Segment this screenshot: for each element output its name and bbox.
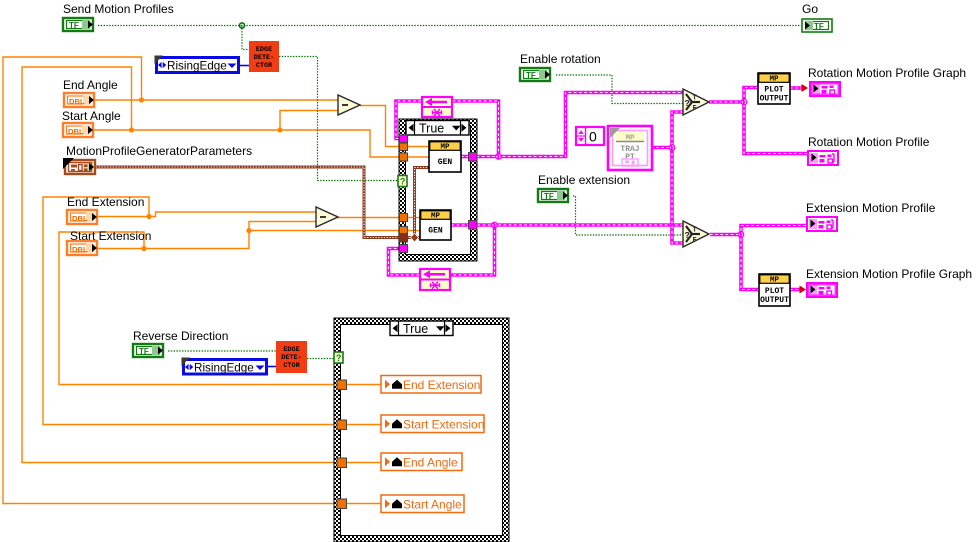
svg-text:Enable rotation: Enable rotation (520, 52, 601, 66)
local variable End Extension (381, 376, 481, 394)
numeric control End Angle (64, 93, 94, 107)
svg-text:CTOR: CTOR (283, 362, 300, 370)
subtract node 1 (338, 95, 360, 115)
indicator Extension Motion Profile Graph (807, 283, 837, 297)
boolean indicator Go (802, 19, 832, 32)
svg-text:GEN: GEN (438, 158, 453, 167)
edge detector 2 (276, 341, 307, 373)
subtract node 2 (316, 207, 338, 227)
wire cluster branch to GEN1 (415, 168, 430, 238)
svg-text:DETE-: DETE- (281, 354, 301, 362)
indicator Rotation Motion Profile (808, 151, 838, 165)
wire Enable rotation to select 1 (556, 75, 683, 104)
wire feedback loop 1 up (453, 101, 499, 157)
wire PLOT OUTPUT 1 to graph indicator (790, 86, 803, 90)
wire enum 1 to edge detector 1 (240, 65, 249, 67)
svg-text:End Angle: End Angle (403, 455, 458, 469)
numeric control Start Extension (67, 241, 97, 255)
edge detector 1 (249, 41, 279, 72)
wire tunnel to GEN2 in2 (406, 230, 420, 232)
junction End Extension (146, 214, 151, 219)
svg-text:MotionProfileGeneratorParamete: MotionProfileGeneratorParameters (66, 144, 252, 158)
local variable Start Extension (381, 415, 484, 433)
tunnel local End Angle (337, 458, 347, 468)
svg-text:Enable extension: Enable extension (538, 173, 630, 187)
wire Start Extension main (98, 231, 420, 249)
wire GEN2 to right wall (452, 223, 478, 227)
wire tunnel to GEN1 in2 (406, 156, 429, 158)
svg-text:Send Motion Profiles: Send Motion Profiles (63, 2, 174, 16)
svg-text:TF: TF (814, 22, 824, 31)
enum constant RisingEdge 2 (182, 358, 267, 375)
svg-text:PLOT: PLOT (765, 287, 784, 296)
svg-text:OUTPUT: OUTPUT (760, 296, 789, 305)
junction End Angle (139, 97, 144, 102)
cluster control MotionProfileGeneratorParameters (63, 158, 95, 174)
numeric control Start Angle (63, 123, 93, 137)
tunnel local End Extension (337, 380, 347, 390)
case 1 selector label True (406, 121, 469, 136)
wire MotionProfileGeneratorParameters cluster (96, 167, 420, 238)
svg-text:T: T (693, 95, 697, 103)
wire select 1 to PLOT and indicator (744, 88, 807, 154)
wire edge detector 2 to case selector 2 (307, 358, 334, 360)
svg-text:DBL: DBL (69, 97, 85, 106)
wire Enable extension to select 2 (573, 196, 683, 235)
wire tunnel to GEN1 in1 (406, 146, 429, 148)
svg-text:TF: TF (139, 347, 149, 356)
enum constant RisingEdge 1 (155, 56, 239, 73)
svg-text:Extension Motion Profile Graph: Extension Motion Profile Graph (806, 267, 972, 281)
wire rail Start Angle to End Angle local (22, 67, 381, 463)
MP GEN 2 (420, 210, 451, 240)
wire tunnel to GEN2 in1 (406, 217, 420, 219)
wire edge detector 1 to case selector (279, 57, 398, 181)
boolean control Reverse Direction (133, 344, 163, 357)
numeric control End Extension (67, 210, 97, 224)
wire PLOT OUTPUT 2 to graph indicator (790, 288, 800, 292)
wire tunnel to Start Angle local (341, 503, 381, 505)
wire Start Angle main (94, 130, 429, 157)
svg-text:Reverse Direction: Reverse Direction (133, 329, 228, 343)
wire feedback 2 output to case tunnel (389, 249, 420, 276)
svg-text:TF: TF (544, 192, 554, 201)
svg-text:CTOR: CTOR (256, 62, 273, 70)
junction pink sel2 (738, 231, 745, 238)
svg-text:0: 0 (589, 129, 597, 145)
indicator Extension Motion Profile (807, 217, 837, 231)
case structure 1 (399, 119, 477, 261)
svg-text:DETE-: DETE- (254, 54, 274, 62)
svg-text:Extension Motion Profile: Extension Motion Profile (806, 201, 936, 215)
svg-text:True: True (403, 322, 428, 336)
case 2 selector terminal (334, 352, 343, 363)
wire select 2 to indicator and PLOT (741, 226, 806, 290)
wire tunnel to End Angle local (341, 462, 381, 464)
wire Send Motion Profiles to Go (98, 25, 801, 27)
junction pink sel1 (741, 99, 748, 106)
svg-text:F: F (693, 237, 697, 245)
select node 1 (683, 89, 709, 115)
wire Reverse Direction to edge detector 2 (168, 350, 276, 352)
boolean control Enable extension (538, 189, 568, 202)
wire End Angle to subtract (95, 99, 338, 101)
wire GEN2 output to select 2 (452, 223, 684, 227)
local variable End Angle (381, 453, 462, 471)
case structure 2 (334, 318, 509, 542)
svg-text:EDGE: EDGE (283, 346, 299, 354)
svg-text:?: ? (685, 231, 690, 241)
svg-text:PLOT: PLOT (764, 85, 783, 94)
wire feedback loop 2 down (451, 225, 495, 275)
tunnel local Start Extension (337, 420, 347, 430)
tunnel feedback 2 in (400, 245, 408, 253)
case 1 selector terminal (398, 176, 407, 187)
svg-text:DBL: DBL (68, 127, 84, 136)
junction pink 2 (491, 222, 498, 229)
svg-text:Rotation Motion Profile: Rotation Motion Profile (808, 135, 930, 149)
wire subtract1 output to GEN1 (360, 106, 429, 147)
svg-text:OUTPUT: OUTPUT (760, 94, 789, 103)
red terminal arrow 2 (800, 286, 807, 294)
svg-text:EDGE: EDGE (256, 46, 272, 54)
wire tunnel to GEN2 cluster (406, 236, 420, 239)
wire subtract2 output to GEN2 (336, 217, 420, 219)
wire Start Extension branch to subtract2 (249, 222, 316, 231)
wire trajectory riser (672, 112, 683, 243)
wire tunnel to Start Extension local (341, 424, 381, 426)
boolean control Enable rotation (520, 68, 550, 81)
feedback node 1 (421, 97, 453, 117)
wire rail End Extension to Start Extension local (43, 197, 381, 425)
svg-text:End Extension: End Extension (403, 378, 480, 392)
select node 2 (683, 221, 709, 247)
wire rail Start Extension to End Extension local (59, 232, 381, 385)
tunnel Start Angle in (400, 153, 408, 161)
wire feedback 1 output to case tunnel (396, 101, 421, 139)
tunnel local Start Angle (337, 499, 347, 509)
tunnel GEN1 out (469, 153, 478, 162)
wire TRAJ PT output (651, 146, 672, 150)
local variable Start Angle (381, 495, 464, 513)
junction green wire (239, 23, 244, 28)
wire Start Angle branch to subtract (280, 111, 338, 131)
MP GEN 1 (429, 141, 461, 172)
svg-text:Start Angle: Start Angle (403, 497, 462, 511)
wire branch to edge detector 1 (242, 26, 249, 50)
junction pink 1 (495, 153, 502, 160)
wire rail End Angle to Start Angle local (3, 57, 381, 504)
svg-text:TF: TF (69, 21, 79, 30)
tunnel subtract1 result (400, 143, 408, 151)
wire enum 2 to edge detector 2 (268, 366, 276, 368)
junction Start Angle rail (129, 127, 134, 132)
numeric constant 0 (576, 127, 604, 145)
svg-text:MP: MP (625, 135, 635, 143)
junction Start Extension branch (246, 228, 251, 233)
junction Start Extension rail (141, 246, 146, 251)
wire GEN1 output to select 1 (461, 93, 683, 157)
tunnel subtract2 result (400, 214, 408, 222)
wire select 2 output (710, 233, 741, 237)
svg-text:RisingEdge: RisingEdge (167, 59, 227, 72)
svg-text:True: True (419, 121, 444, 135)
junction pink traj (669, 144, 676, 151)
MP PLOT OUTPUT 2 (759, 274, 790, 306)
svg-text:End Angle: End Angle (63, 78, 118, 92)
MP TRAJ PT node (608, 126, 652, 170)
wire select 1 output (709, 100, 744, 104)
feedback node 2 (419, 269, 451, 290)
red terminal arrow 1 (802, 84, 809, 92)
svg-text:End Extension: End Extension (67, 195, 144, 209)
svg-text:?: ? (336, 353, 342, 363)
wire GEN1 to right wall (461, 155, 477, 159)
svg-text:?: ? (400, 176, 406, 186)
svg-text:Go: Go (802, 2, 818, 16)
indicator Rotation Motion Profile Graph (810, 82, 840, 96)
wire riser cluster inside (415, 168, 430, 238)
svg-text:TF: TF (526, 71, 536, 80)
svg-text:DBL: DBL (72, 245, 88, 254)
tunnel Start Extension in (400, 227, 408, 235)
svg-text:GEN: GEN (428, 226, 443, 235)
svg-text:MP: MP (769, 76, 779, 84)
svg-text:MP: MP (440, 144, 450, 152)
svg-text:MP: MP (770, 277, 780, 285)
svg-text:RisingEdge: RisingEdge (194, 361, 254, 374)
boolean control Send Motion Profiles (63, 18, 93, 31)
tunnel GEN2 out (469, 221, 478, 230)
svg-text:F: F (693, 105, 697, 113)
svg-text:MP: MP (431, 213, 441, 221)
svg-text:?: ? (685, 99, 690, 109)
junction cluster wire diamond (411, 233, 419, 242)
svg-text:Start Angle: Start Angle (62, 109, 121, 123)
svg-text:Start Extension: Start Extension (403, 417, 484, 431)
junction cluster diamond inside (411, 233, 419, 242)
svg-text:DBL: DBL (72, 214, 88, 223)
tunnel cluster in (400, 234, 408, 243)
MP PLOT OUTPUT 1 (758, 73, 790, 104)
svg-text:T: T (693, 227, 697, 235)
junction Start Angle branch (277, 127, 282, 132)
case 2 selector label True (390, 321, 453, 336)
svg-text:Rotation Motion Profile Graph: Rotation Motion Profile Graph (808, 66, 966, 80)
tunnel feedback 1 in (400, 135, 408, 143)
wire tunnel to End Extension local (341, 384, 381, 386)
wire End Extension to subtract2 (98, 212, 316, 217)
